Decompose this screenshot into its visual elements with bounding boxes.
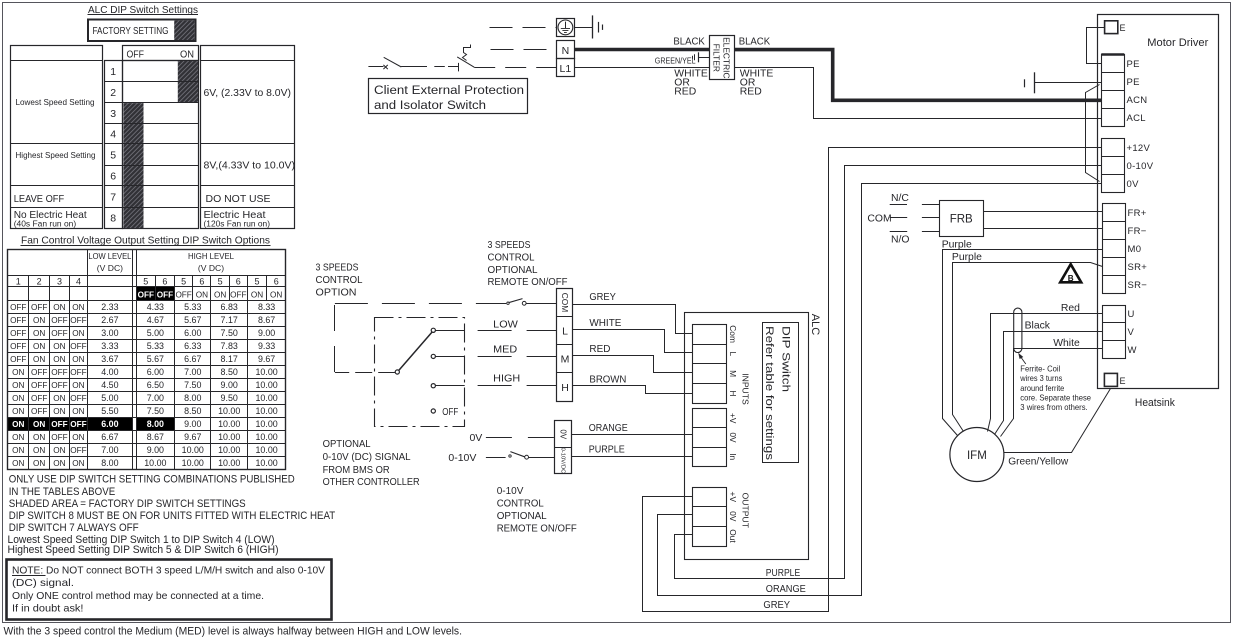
label: 3 SPEEDS CONTROL OPTIONAL REMOTE ON/OFF bbox=[488, 239, 568, 288]
remote on/off switch (3 speed) bbox=[477, 299, 557, 306]
svg-text:ON: ON bbox=[251, 290, 263, 299]
svg-text:ON: ON bbox=[33, 433, 45, 442]
svg-text:0-10V: 0-10V bbox=[1127, 161, 1154, 172]
DIP table description column bbox=[200, 46, 295, 229]
svg-text:Client External Protection: Client External Protection bbox=[374, 83, 524, 97]
svg-text:ON: ON bbox=[72, 433, 84, 442]
svg-text:INPUTS: INPUTS bbox=[741, 373, 751, 405]
svg-text:Ferrite- Coil: Ferrite- Coil bbox=[1020, 364, 1060, 374]
wire PURPLE 0-10V to ALC In bbox=[572, 445, 693, 457]
terminal group +12V/0-10V/0V bbox=[1101, 139, 1153, 193]
svg-text:5.33: 5.33 bbox=[147, 341, 164, 351]
svg-text:4: 4 bbox=[110, 129, 116, 141]
wire Black V to motor bbox=[995, 332, 1103, 435]
svg-text:OFF: OFF bbox=[51, 433, 67, 442]
svg-text:Only ONE control method may be: Only ONE control method may be connected… bbox=[12, 591, 264, 602]
svg-text:ONLY USE DIP SWITCH SETTING CO: ONLY USE DIP SWITCH SETTING COMBINATIONS… bbox=[9, 474, 295, 486]
svg-text:2: 2 bbox=[37, 276, 42, 286]
svg-text:M0: M0 bbox=[1128, 244, 1142, 255]
svg-text:5.00: 5.00 bbox=[101, 393, 118, 403]
svg-text:10.00: 10.00 bbox=[255, 380, 277, 390]
svg-text:W: W bbox=[1128, 345, 1137, 356]
svg-text:6.00: 6.00 bbox=[184, 328, 201, 338]
isolator switch SW1 with fuse mark bbox=[368, 57, 427, 69]
svg-text:(DC) signal.: (DC) signal. bbox=[12, 578, 74, 589]
svg-text:ON: ON bbox=[53, 342, 65, 351]
wire WHITE L to ALC L bbox=[573, 318, 693, 353]
svg-text:DIP Switch: DIP Switch bbox=[779, 326, 791, 392]
svg-text:OFF: OFF bbox=[127, 49, 145, 61]
svg-text:BLACK: BLACK bbox=[739, 37, 770, 48]
dash-dot enclosure of selector switch bbox=[375, 318, 465, 427]
svg-text:Black: Black bbox=[1025, 321, 1051, 332]
svg-text:9.00: 9.00 bbox=[221, 380, 238, 390]
svg-text:ON: ON bbox=[72, 459, 84, 468]
wire LOW contact to terminal L bbox=[436, 319, 558, 331]
svg-text:6.67: 6.67 bbox=[184, 354, 201, 364]
svg-text:+V: +V bbox=[728, 413, 738, 424]
svg-text:L1: L1 bbox=[560, 63, 572, 75]
ALC output terminals +V/0V/Out bbox=[693, 488, 739, 547]
svg-text:NOTE: Do NOT connect BOTH 3 sp: NOTE: Do NOT connect BOTH 3 speed L/M/H … bbox=[12, 565, 325, 576]
svg-text:ON: ON bbox=[33, 329, 45, 338]
FRB input stubs bbox=[922, 205, 940, 232]
wire ORANGE 0V out to 0V bbox=[658, 184, 1102, 596]
svg-text:10.00: 10.00 bbox=[255, 406, 277, 416]
svg-text:OFF: OFF bbox=[31, 368, 47, 377]
svg-text:10.00: 10.00 bbox=[255, 419, 277, 429]
svg-text:5: 5 bbox=[218, 276, 223, 286]
svg-text:9.33: 9.33 bbox=[258, 341, 275, 351]
label WHITE OR RED (left of filter) bbox=[674, 69, 708, 98]
terminal L1 bbox=[557, 59, 575, 77]
svg-text:OFF: OFF bbox=[70, 446, 86, 455]
fan-table black highlight cells bbox=[8, 287, 175, 430]
svg-text:7.17: 7.17 bbox=[221, 315, 238, 325]
svg-text:1: 1 bbox=[16, 276, 21, 286]
svg-text:White: White bbox=[1053, 338, 1080, 349]
svg-text:8.67: 8.67 bbox=[258, 315, 275, 325]
svg-text:10.00: 10.00 bbox=[218, 432, 240, 442]
svg-text:(120s Fan run on): (120s Fan run on) bbox=[204, 219, 271, 229]
DIP table switch number column bbox=[104, 61, 122, 229]
svg-text:7.00: 7.00 bbox=[147, 393, 164, 403]
svg-text:OFF: OFF bbox=[31, 303, 47, 312]
wire RED M to ALC M bbox=[573, 344, 693, 373]
svg-text:Refer table for settings: Refer table for settings bbox=[763, 326, 775, 461]
wire White W to motor bbox=[1001, 349, 1103, 437]
wire bundle funnel bbox=[1086, 85, 1100, 182]
FRB relay box bbox=[940, 201, 984, 237]
svg-text:H: H bbox=[728, 390, 738, 396]
svg-text:10.00: 10.00 bbox=[218, 406, 240, 416]
dashed wire selector pole to remote switch bbox=[335, 304, 478, 373]
wire BROWN H to ALC H bbox=[573, 375, 693, 394]
svg-text:7.50: 7.50 bbox=[184, 380, 201, 390]
terminal group U/V/W bbox=[1102, 306, 1136, 359]
svg-text:7.00: 7.00 bbox=[184, 367, 201, 377]
svg-text:5.67: 5.67 bbox=[184, 315, 201, 325]
svg-text:10.00: 10.00 bbox=[255, 458, 277, 468]
svg-text:OPTIONAL: OPTIONAL bbox=[497, 510, 547, 522]
svg-text:OFF: OFF bbox=[70, 394, 86, 403]
svg-text:OFF: OFF bbox=[442, 406, 458, 418]
svg-text:SHADED AREA = FACTORY DIP SWIT: SHADED AREA = FACTORY DIP SWITCH SETTING… bbox=[9, 498, 246, 510]
wire FRB to FR- bbox=[983, 228, 1102, 230]
svg-text:around ferrite: around ferrite bbox=[1020, 383, 1064, 393]
svg-text:PE: PE bbox=[1127, 77, 1140, 88]
svg-text:OFF: OFF bbox=[31, 407, 47, 416]
svg-text:ORANGE: ORANGE bbox=[766, 584, 806, 595]
svg-text:2: 2 bbox=[110, 87, 116, 99]
svg-text:9.67: 9.67 bbox=[258, 354, 275, 364]
svg-text:IFM: IFM bbox=[967, 450, 987, 462]
svg-text:OFF: OFF bbox=[70, 316, 86, 325]
svg-text:HIGH: HIGH bbox=[493, 373, 520, 385]
svg-text:Out: Out bbox=[728, 529, 738, 543]
svg-text:H: H bbox=[561, 382, 569, 394]
svg-text:PE: PE bbox=[1127, 59, 1140, 70]
label: 3 SPEEDS CONTROL OPTION bbox=[316, 262, 363, 299]
electric filter box bbox=[710, 36, 735, 80]
warning triangle B bbox=[1060, 264, 1081, 283]
svg-text:ON: ON bbox=[33, 459, 45, 468]
svg-text:3.00: 3.00 bbox=[101, 328, 118, 338]
svg-text:Purple: Purple bbox=[952, 252, 982, 263]
svg-text:6: 6 bbox=[274, 276, 279, 286]
svg-text:HIGH LEVEL: HIGH LEVEL bbox=[188, 251, 234, 261]
0V / 0-10VDC terminal block bbox=[555, 421, 573, 475]
svg-text:OFF: OFF bbox=[70, 342, 86, 351]
svg-text:10.00: 10.00 bbox=[182, 445, 204, 455]
wire Green/Yellow motor to heatsink E bbox=[1004, 389, 1111, 453]
svg-text:LEAVE OFF: LEAVE OFF bbox=[14, 193, 64, 205]
fan-table header text bbox=[16, 251, 283, 300]
svg-text:ACN: ACN bbox=[1127, 95, 1148, 106]
svg-text:If in doubt ask!: If in doubt ask! bbox=[12, 603, 84, 614]
0V source wire bbox=[469, 432, 555, 444]
svg-text:LOW LEVEL: LOW LEVEL bbox=[88, 251, 131, 261]
svg-text:OPTION: OPTION bbox=[316, 286, 357, 298]
svg-text:ON: ON bbox=[12, 459, 24, 468]
DIP table OFF/ON header bbox=[123, 46, 199, 61]
terminal E (top) bbox=[1105, 21, 1126, 34]
svg-text:OFF: OFF bbox=[31, 381, 47, 390]
svg-text:OFF: OFF bbox=[51, 420, 67, 429]
svg-text:N/O: N/O bbox=[891, 234, 909, 245]
svg-text:Lowest Speed Setting: Lowest Speed Setting bbox=[16, 97, 95, 107]
svg-text:IN THE TABLES ABOVE: IN THE TABLES ABOVE bbox=[9, 486, 116, 498]
svg-text:Highest Speed Setting: Highest Speed Setting bbox=[16, 150, 96, 160]
svg-text:0-10V/DC: 0-10V/DC bbox=[559, 447, 565, 474]
svg-text:8.17: 8.17 bbox=[221, 354, 238, 364]
svg-text:U: U bbox=[1128, 309, 1135, 320]
svg-text:OFF: OFF bbox=[70, 368, 86, 377]
label WHITE OR RED (right of filter) bbox=[740, 69, 774, 98]
Motor Driver box bbox=[1098, 15, 1219, 389]
svg-text:3 SPEEDS: 3 SPEEDS bbox=[488, 239, 531, 251]
svg-text:OFF: OFF bbox=[10, 329, 26, 338]
svg-text:+12V: +12V bbox=[1127, 143, 1151, 154]
svg-text:9.00: 9.00 bbox=[184, 419, 201, 429]
svg-text:ALC: ALC bbox=[809, 314, 821, 335]
svg-text:Com: Com bbox=[728, 325, 738, 343]
fan-table grid bbox=[8, 250, 286, 470]
0-10V source wire with remote switch bbox=[448, 452, 555, 464]
svg-text:ON: ON bbox=[12, 381, 24, 390]
svg-text:OFF: OFF bbox=[10, 342, 26, 351]
svg-text:OFF: OFF bbox=[51, 368, 67, 377]
svg-text:6V, (2.33V to 8.0V): 6V, (2.33V to 8.0V) bbox=[204, 87, 292, 99]
wire purple M0 to motor bbox=[943, 250, 1103, 436]
svg-text:ON: ON bbox=[33, 342, 45, 351]
svg-text:7.50: 7.50 bbox=[221, 328, 238, 338]
svg-text:FR−: FR− bbox=[1128, 226, 1147, 237]
wire GREY COM to ALC Com bbox=[573, 292, 693, 333]
svg-text:ON: ON bbox=[53, 459, 65, 468]
terminal group PE/PE/ACN/ACL bbox=[1101, 55, 1147, 127]
ALC controller box bbox=[685, 313, 822, 560]
svg-text:6: 6 bbox=[199, 276, 204, 286]
svg-text:CONTROL: CONTROL bbox=[497, 498, 544, 510]
svg-text:RED: RED bbox=[740, 87, 762, 98]
svg-text:5.50: 5.50 bbox=[101, 406, 118, 416]
wire E to PE bbox=[1087, 28, 1105, 64]
FRB contact labels N/C COM N/O bbox=[867, 193, 909, 246]
svg-text:REMOTE ON/OFF: REMOTE ON/OFF bbox=[497, 522, 577, 534]
svg-text:3: 3 bbox=[110, 108, 116, 120]
ferrite note arrow bbox=[1018, 353, 1026, 364]
svg-text:Red: Red bbox=[1061, 303, 1080, 314]
svg-text:5.00: 5.00 bbox=[147, 328, 164, 338]
dashed supply wire to earth terminal bbox=[490, 27, 557, 29]
wire FRB to FR+ bbox=[983, 211, 1102, 213]
svg-text:10.00: 10.00 bbox=[255, 367, 277, 377]
svg-text:8V,(4.33V to 10.0V): 8V,(4.33V to 10.0V) bbox=[204, 160, 296, 172]
svg-text:4.00: 4.00 bbox=[101, 367, 118, 377]
speed selector terminal block COM/L/M/H bbox=[557, 289, 574, 402]
svg-text:WHITE: WHITE bbox=[589, 318, 621, 329]
svg-text:ON: ON bbox=[33, 446, 45, 455]
svg-text:6: 6 bbox=[110, 170, 116, 182]
svg-text:0V: 0V bbox=[559, 429, 568, 439]
svg-text:Green/Yellow: Green/Yellow bbox=[1008, 456, 1068, 467]
svg-text:L: L bbox=[562, 326, 568, 338]
svg-text:ON: ON bbox=[53, 394, 65, 403]
svg-text:6.83: 6.83 bbox=[221, 302, 238, 312]
svg-text:6.33: 6.33 bbox=[184, 341, 201, 351]
svg-text:OFF: OFF bbox=[175, 290, 191, 299]
svg-text:9.50: 9.50 bbox=[221, 393, 238, 403]
bottom caption bbox=[4, 625, 463, 637]
svg-text:3 wires from others.: 3 wires from others. bbox=[1020, 402, 1087, 412]
svg-text:7.50: 7.50 bbox=[147, 406, 164, 416]
svg-text:OUTPUT: OUTPUT bbox=[741, 493, 751, 529]
svg-text:OFF: OFF bbox=[51, 329, 67, 338]
svg-text:RED: RED bbox=[589, 344, 610, 355]
terminal N bbox=[557, 41, 575, 59]
svg-text:4.67: 4.67 bbox=[147, 315, 164, 325]
svg-text:10.00: 10.00 bbox=[182, 458, 204, 468]
svg-text:0V: 0V bbox=[1127, 179, 1140, 190]
svg-text:COM: COM bbox=[560, 293, 570, 313]
svg-text:ON: ON bbox=[270, 290, 282, 299]
svg-text:N: N bbox=[562, 45, 570, 57]
svg-text:OTHER CONTROLLER: OTHER CONTROLLER bbox=[323, 476, 420, 488]
white/red wire filter to ACL bbox=[735, 68, 1102, 119]
wire MED contact to terminal M bbox=[436, 344, 558, 357]
svg-text:ON: ON bbox=[12, 433, 24, 442]
svg-text:Highest Speed Setting DIP Swit: Highest Speed Setting DIP Switch 5 & DIP… bbox=[8, 544, 279, 556]
svg-text:ON: ON bbox=[12, 394, 24, 403]
wire PURPLE Out to 0-10V bbox=[675, 166, 1102, 580]
svg-text:10.00: 10.00 bbox=[218, 445, 240, 455]
svg-text:OFF: OFF bbox=[51, 316, 67, 325]
svg-text:8.00: 8.00 bbox=[147, 419, 164, 429]
svg-text:OFF: OFF bbox=[31, 394, 47, 403]
svg-text:Motor Driver: Motor Driver bbox=[1147, 37, 1208, 49]
svg-text:FACTORY SETTING: FACTORY SETTING bbox=[93, 25, 169, 37]
ALC input terminals Com/L/M/H bbox=[693, 325, 739, 404]
svg-text:OFF: OFF bbox=[10, 316, 26, 325]
svg-text:OFF: OFF bbox=[138, 290, 154, 299]
svg-text:OFF: OFF bbox=[230, 290, 246, 299]
terminal group FR+/FR-/M0/SR+/SR- bbox=[1102, 204, 1147, 294]
svg-text:7: 7 bbox=[110, 191, 116, 203]
svg-text:9.00: 9.00 bbox=[258, 328, 275, 338]
dashed supply wire to N bbox=[491, 49, 557, 51]
svg-text:5: 5 bbox=[143, 276, 148, 286]
svg-text:CONTROL: CONTROL bbox=[488, 251, 535, 263]
svg-text:6.00: 6.00 bbox=[147, 367, 164, 377]
svg-text:CONTROL: CONTROL bbox=[316, 274, 363, 286]
svg-text:ON: ON bbox=[33, 420, 45, 429]
FACTORY SETTING legend box bbox=[88, 20, 196, 42]
client protection label box bbox=[369, 79, 528, 114]
svg-text:6: 6 bbox=[236, 276, 241, 286]
svg-text:10.00: 10.00 bbox=[255, 432, 277, 442]
svg-text:8.33: 8.33 bbox=[258, 302, 275, 312]
svg-text:and Isolator Switch: and Isolator Switch bbox=[374, 98, 486, 112]
table: Fan Control Voltage Output Setting DIP Switch Options bbox=[21, 235, 271, 247]
svg-text:ON: ON bbox=[33, 355, 45, 364]
svg-text:ON: ON bbox=[72, 381, 84, 390]
svg-text:ACL: ACL bbox=[1127, 113, 1146, 124]
svg-text:3.67: 3.67 bbox=[101, 354, 118, 364]
fan-table data rows bbox=[10, 302, 278, 468]
svg-text:0V: 0V bbox=[728, 432, 738, 443]
svg-text:8.00: 8.00 bbox=[184, 393, 201, 403]
wire purple SR+ to motor bbox=[953, 263, 1103, 432]
svg-text:(V DC): (V DC) bbox=[198, 263, 224, 273]
svg-text:M: M bbox=[561, 354, 570, 366]
dashed supply wire to L1 bbox=[474, 67, 556, 69]
svg-text:OPTIONAL: OPTIONAL bbox=[488, 264, 538, 276]
svg-text:4.33: 4.33 bbox=[147, 302, 164, 312]
svg-text:ON: ON bbox=[53, 355, 65, 364]
svg-text:SR−: SR− bbox=[1128, 280, 1148, 291]
svg-text:10.00: 10.00 bbox=[144, 458, 166, 468]
svg-text:BLACK: BLACK bbox=[673, 37, 704, 48]
svg-text:2.33: 2.33 bbox=[101, 302, 118, 312]
svg-text:FRB: FRB bbox=[950, 214, 973, 226]
svg-text:6.50: 6.50 bbox=[147, 380, 164, 390]
wire GREY +V out to +12V bbox=[643, 148, 1102, 612]
svg-text:With the 3 speed control the M: With the 3 speed control the Medium (MED… bbox=[4, 625, 463, 637]
wire Red U to motor bbox=[988, 314, 1103, 432]
svg-text:ON: ON bbox=[72, 355, 84, 364]
svg-text:10.00: 10.00 bbox=[255, 445, 277, 455]
svg-text:OFF: OFF bbox=[10, 355, 26, 364]
svg-text:ON: ON bbox=[12, 420, 24, 429]
svg-text:wires 3 turns: wires 3 turns bbox=[1019, 373, 1062, 383]
svg-text:BROWN: BROWN bbox=[589, 375, 626, 386]
thick black live wire N to filter bbox=[574, 48, 709, 52]
svg-text:GREY: GREY bbox=[763, 600, 790, 611]
svg-text:0-10V: 0-10V bbox=[497, 485, 524, 497]
motor IFM bbox=[950, 428, 1004, 482]
svg-text:10.00: 10.00 bbox=[255, 393, 277, 403]
terminal E (heatsink) bbox=[1104, 373, 1125, 386]
svg-text:ON: ON bbox=[196, 290, 208, 299]
ALC input terminals +V/0V/In bbox=[693, 409, 739, 467]
svg-text:PURPLE: PURPLE bbox=[589, 445, 625, 456]
svg-text:7.00: 7.00 bbox=[101, 445, 118, 455]
svg-text:RED: RED bbox=[674, 87, 696, 98]
svg-text:5: 5 bbox=[254, 276, 259, 286]
notes below tables bbox=[8, 474, 336, 556]
svg-text:5.67: 5.67 bbox=[147, 354, 164, 364]
svg-text:1: 1 bbox=[110, 66, 116, 78]
svg-text:6.00: 6.00 bbox=[101, 419, 118, 429]
svg-text:DO NOT USE: DO NOT USE bbox=[206, 193, 271, 205]
svg-text:9.67: 9.67 bbox=[184, 432, 201, 442]
ferrite note text bbox=[1019, 364, 1091, 412]
earth terminal (circle with earth symbol) bbox=[557, 19, 575, 37]
white/red wire L1 to filter bbox=[574, 67, 709, 69]
svg-text:MED: MED bbox=[493, 344, 517, 356]
svg-text:FILTER: FILTER bbox=[711, 44, 721, 72]
green/yellow earth into filter with chassis symbol bbox=[655, 52, 710, 65]
svg-text:OFF: OFF bbox=[10, 303, 26, 312]
svg-text:ON: ON bbox=[72, 407, 84, 416]
svg-text:B: B bbox=[1068, 274, 1074, 283]
svg-text:OFF: OFF bbox=[51, 381, 67, 390]
svg-text:ON: ON bbox=[12, 446, 24, 455]
label OPTIONAL 0-10V (DC) SIGNAL FROM BMS OR OTHER CONTROLLER bbox=[323, 438, 420, 488]
ferrite core loop bbox=[1014, 308, 1022, 352]
svg-text:Fan Control Voltage Output Set: Fan Control Voltage Output Setting DIP S… bbox=[21, 235, 270, 247]
svg-text:5: 5 bbox=[110, 149, 116, 161]
svg-text:In: In bbox=[728, 453, 738, 460]
chassis earth at PE bbox=[1025, 72, 1102, 93]
svg-text:3.33: 3.33 bbox=[101, 341, 118, 351]
svg-text:6: 6 bbox=[162, 276, 167, 286]
svg-text:GREEN/YEL: GREEN/YEL bbox=[655, 56, 696, 65]
svg-text:ON: ON bbox=[214, 290, 226, 299]
selector switch S1 rotary 3-position bbox=[395, 328, 458, 418]
svg-text:3 SPEEDS: 3 SPEEDS bbox=[316, 262, 359, 274]
svg-text:8.00: 8.00 bbox=[101, 458, 118, 468]
table: ALC DIP Switch Settings bbox=[88, 4, 199, 16]
svg-text:DIP SWITCH 7 ALWAYS OFF: DIP SWITCH 7 ALWAYS OFF bbox=[9, 522, 139, 534]
svg-text:0-10V: 0-10V bbox=[448, 452, 476, 464]
svg-text:10.00: 10.00 bbox=[218, 419, 240, 429]
svg-text:5: 5 bbox=[181, 276, 186, 286]
svg-text:8.50: 8.50 bbox=[184, 406, 201, 416]
svg-text:8.50: 8.50 bbox=[221, 367, 238, 377]
DIP table left label column bbox=[11, 46, 103, 229]
